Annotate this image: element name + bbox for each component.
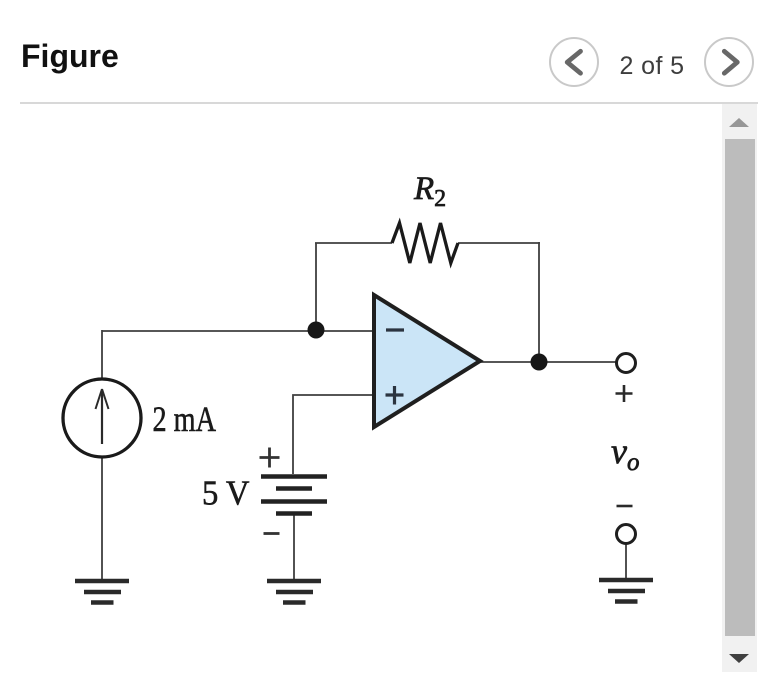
- output minus sign: [617, 505, 633, 508]
- battery minus sign: [264, 532, 280, 535]
- scrollbar up arrow: [729, 118, 749, 127]
- header title: [21, 40, 119, 72]
- prev button: [549, 37, 599, 87]
- op-amp U1: [374, 295, 480, 427]
- wire from node A up to feedback level: [315, 243, 317, 330]
- battery V1 5V: [261, 477, 327, 514]
- wire from current source top to inverting input line: [101, 330, 103, 378]
- svg-text:vo: vo: [611, 431, 639, 476]
- ground (current source): [75, 581, 129, 603]
- output terminal bottom (open circle): [617, 525, 636, 544]
- current source I1 (2 mA): [63, 379, 141, 457]
- wire current source bottom to ground: [101, 458, 103, 579]
- scrollbar thumb: [725, 139, 755, 636]
- wire horizontal to op-amp inverting input: [102, 330, 374, 332]
- page indicator: [604, 54, 700, 79]
- wire feedback right segment: [458, 242, 540, 244]
- output node junction dot: [531, 354, 548, 371]
- output terminal top (open circle): [617, 354, 636, 373]
- ground (battery): [267, 581, 321, 603]
- battery plus sign: [260, 448, 280, 468]
- scrollbar track: [722, 104, 757, 672]
- node A junction dot (inverting input): [308, 322, 325, 339]
- ground (output): [599, 580, 653, 602]
- wire output lower terminal to ground: [625, 544, 627, 578]
- svg-text:R2: R2: [413, 171, 446, 212]
- next button: [704, 37, 754, 87]
- wire op-amp output to terminal: [480, 361, 616, 363]
- output plus sign: [616, 385, 633, 402]
- op-amp non-inverting input marker (plus): [386, 386, 404, 405]
- svg-text:2 mA: 2 mA: [153, 399, 217, 439]
- divider: [20, 102, 758, 104]
- resistor R2: [392, 223, 458, 263]
- op-amp inverting input marker (minus): [386, 328, 404, 331]
- wire battery bottom to ground: [293, 513, 295, 579]
- wire feedback left segment: [315, 242, 392, 244]
- wire to op-amp noninverting input: [293, 395, 374, 474]
- svg-text:5 V: 5 V: [202, 474, 250, 513]
- scrollbar down arrow: [729, 654, 749, 663]
- wire from feedback down to output node: [538, 242, 540, 362]
